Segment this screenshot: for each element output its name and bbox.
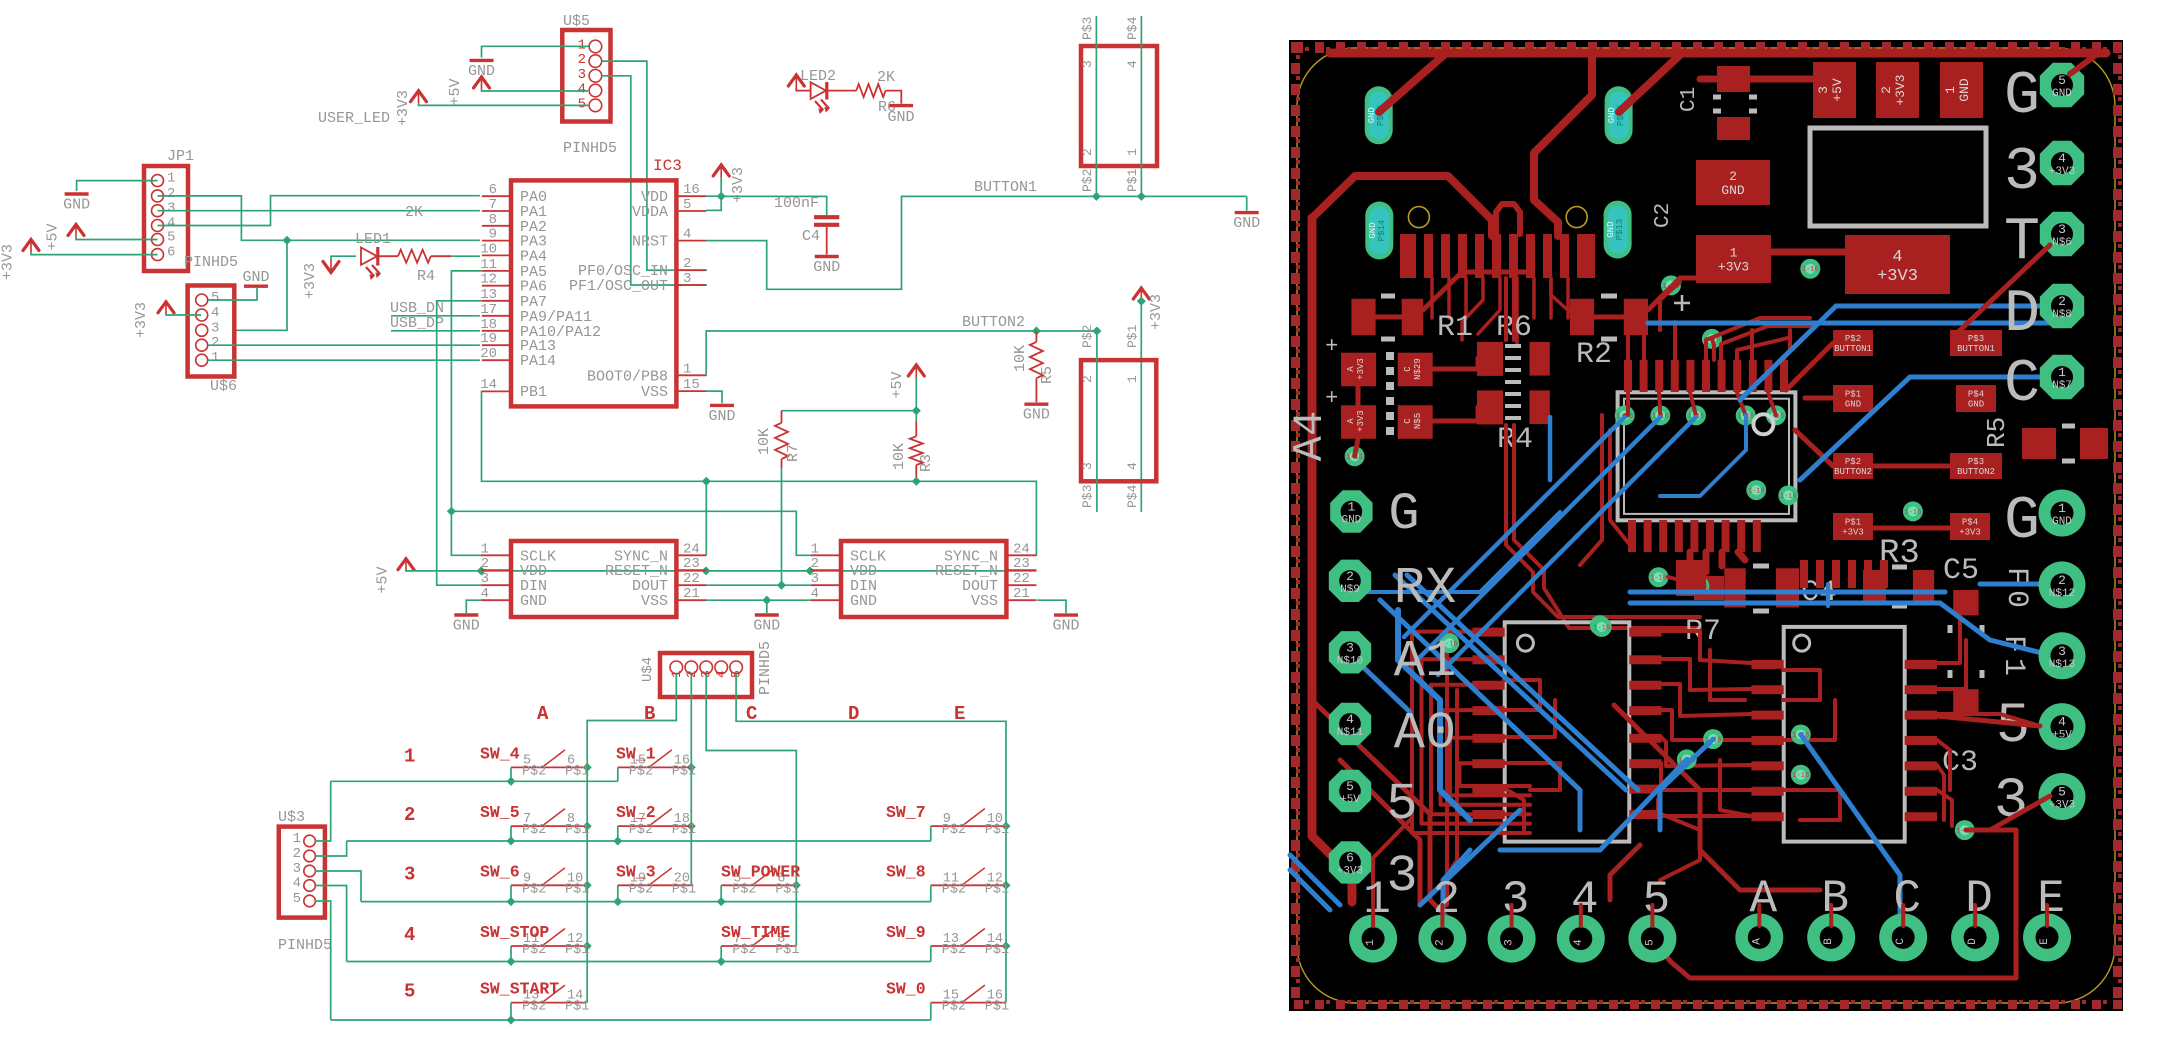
- pad 5 GND: [2040, 63, 2084, 107]
- switch SW_6: [511, 884, 586, 886]
- wire DAC1 VSS to DAC2 GND, shared GND: [706, 599, 811, 601]
- wire NRST to BUTTON1: [706, 196, 1247, 289]
- svg-text:+5V: +5V: [447, 78, 464, 105]
- svg-text:2: 2: [167, 186, 175, 202]
- svg-text:24: 24: [683, 541, 700, 557]
- svg-text:GND: GND: [813, 259, 840, 276]
- svg-text:U$5: U$5: [563, 13, 590, 30]
- svg-text:5: 5: [1644, 939, 1656, 946]
- svg-text:P$2: P$2: [629, 823, 653, 838]
- svg-text:4: 4: [1892, 248, 1902, 267]
- svg-text:P$1: P$1: [1125, 168, 1140, 192]
- wire U$3.5 to bus5: [315, 901, 331, 1020]
- svg-text:A4: A4: [1286, 411, 1334, 461]
- svg-text:23: 23: [1013, 556, 1030, 572]
- svg-text:3: 3: [481, 571, 489, 587]
- DAC U2: [841, 541, 1006, 617]
- IC IC3 (microcontroller): [511, 180, 676, 406]
- svg-text:3: 3: [404, 863, 415, 885]
- svg-text:GND: GND: [753, 618, 780, 635]
- svg-text:GND: GND: [1023, 407, 1050, 424]
- pad P$14 GND (teal oval): [1365, 202, 1393, 260]
- svg-text:BUTTON1: BUTTON1: [1957, 344, 1995, 354]
- svg-text:1-16: 1-16: [1650, 575, 1667, 583]
- svg-text:4: 4: [1125, 60, 1140, 68]
- svg-text:5: 5: [211, 290, 219, 306]
- capacitor C1 pads: [1717, 66, 1750, 92]
- svg-text:A: A: [1749, 873, 1777, 925]
- svg-text:SW_POWER: SW_POWER: [721, 862, 800, 881]
- svg-text:BOOT0/PB8: BOOT0/PB8: [587, 368, 668, 385]
- svg-text:P$1: P$1: [565, 943, 589, 958]
- DAC A inner loops: [1504, 680, 1540, 710]
- switch SW_TIME: [721, 945, 796, 947]
- wire JP1.3 to PA1: [158, 210, 480, 212]
- ground: [65, 192, 89, 195]
- svg-text:4: 4: [1125, 462, 1140, 470]
- +3V3 supply JP1.6: [23, 240, 39, 251]
- svg-text:1-16: 1-16: [1802, 266, 1819, 274]
- svg-text:+3V3: +3V3: [1877, 267, 1918, 286]
- svg-text:+5V: +5V: [45, 223, 62, 250]
- svg-text:+3V3: +3V3: [1356, 358, 1366, 380]
- switch SW_0: [931, 1002, 1006, 1004]
- wire R4 to PA4: [451, 255, 480, 257]
- connector JP1 PINHD6: [144, 166, 188, 271]
- switch SW_5: [511, 825, 586, 827]
- svg-text:+3V3: +3V3: [302, 263, 319, 299]
- wire switch drops: [510, 767, 512, 781]
- pad 1 GND (big octagon): [1330, 490, 1372, 532]
- pad P$2 BUTTON1: [1833, 330, 1873, 356]
- svg-text:0: 0: [1999, 590, 2033, 608]
- blue traces: [1395, 575, 1626, 790]
- svg-text:N$5: N$5: [1413, 413, 1423, 429]
- LED LED1: [361, 248, 377, 265]
- svg-text:23: 23: [683, 556, 700, 572]
- svg-text:3: 3: [578, 67, 586, 83]
- svg-text:+5V: +5V: [375, 566, 392, 593]
- svg-text:P$4: P$4: [1962, 518, 1978, 528]
- wire PA7 to DIN: [437, 301, 482, 585]
- svg-text:1: 1: [683, 361, 691, 377]
- pad P$3 BUTTON1: [1950, 330, 2002, 356]
- QFP interior traces: [1625, 392, 1628, 415]
- svg-text:B: B: [1821, 873, 1849, 925]
- traces into bottom pads: [1371, 905, 1375, 926]
- trace left of QFP: [1610, 430, 1630, 545]
- svg-text:21: 21: [1013, 586, 1030, 602]
- svg-text:5: 5: [1643, 874, 1671, 926]
- svg-text:A: A: [537, 703, 549, 725]
- svg-text:+5V: +5V: [1340, 794, 1360, 806]
- svg-text:GND: GND: [63, 197, 90, 214]
- trace top center down: [1534, 55, 1592, 236]
- svg-text:3: 3: [683, 271, 691, 287]
- svg-text:P$1: P$1: [1845, 518, 1861, 528]
- svg-text:BUTTON1: BUTTON1: [974, 179, 1037, 196]
- svg-text:22: 22: [1013, 571, 1030, 587]
- svg-text:P$2: P$2: [732, 882, 756, 897]
- DAC B top pins: [1800, 560, 1808, 588]
- svg-text:4: 4: [578, 82, 586, 98]
- pad N$5: [1398, 405, 1433, 439]
- svg-text:P$2: P$2: [732, 943, 756, 958]
- svg-text:2: 2: [1729, 169, 1737, 184]
- svg-text:GND: GND: [1845, 400, 1861, 410]
- svg-text:GND: GND: [708, 408, 735, 425]
- svg-text:+5V: +5V: [889, 371, 906, 398]
- button S1 footprint box: [1081, 46, 1157, 166]
- svg-text:GND: GND: [850, 593, 877, 610]
- svg-text:P$1: P$1: [672, 823, 696, 838]
- drill marks (yellow circles): [1408, 207, 1429, 228]
- svg-text:N$12: N$12: [2049, 588, 2075, 600]
- svg-text:4: 4: [1346, 712, 1354, 727]
- svg-text:P$2: P$2: [522, 943, 546, 958]
- svg-text:P$1: P$1: [985, 1000, 1009, 1015]
- traces N$29/N$5 to center pads: [1433, 358, 1478, 369]
- pad 2 GND: [1696, 160, 1770, 205]
- svg-text:A1: A1: [1394, 632, 1456, 691]
- wire VSS to GND: [706, 391, 722, 403]
- USB shell outline: [1496, 204, 1520, 234]
- svg-text:+3V3: +3V3: [0, 244, 17, 280]
- bottom pads A-E: [1735, 913, 1783, 961]
- +5V supply DAC rail: [398, 559, 414, 570]
- svg-text:N$13: N$13: [2049, 659, 2075, 671]
- svg-text:1-16: 1-16: [1904, 509, 1921, 517]
- svg-text:14: 14: [480, 377, 497, 393]
- IC3 left pins: [482, 195, 511, 197]
- svg-text:3: 3: [1080, 60, 1095, 68]
- svg-text:9: 9: [489, 227, 497, 243]
- svg-text:1-16: 1-16: [1593, 624, 1610, 632]
- traces buttons to QFP: [1786, 343, 1833, 390]
- svg-text:N$8: N$8: [2052, 309, 2072, 321]
- svg-text:1: 1: [1996, 658, 2030, 676]
- svg-text:5: 5: [167, 230, 175, 246]
- svg-text:USER_LED: USER_LED: [318, 110, 390, 127]
- svg-text:+3V3: +3V3: [2049, 166, 2075, 178]
- svg-text:1: 1: [1125, 375, 1140, 383]
- switch SW_1: [618, 766, 693, 768]
- svg-text:R4: R4: [417, 268, 435, 285]
- svg-text:R5: R5: [1982, 417, 2012, 448]
- wire row bus 5: [331, 1019, 931, 1021]
- ground: [1024, 403, 1048, 406]
- DAC B pins: [1751, 660, 1783, 669]
- svg-text:SW_7: SW_7: [886, 803, 926, 822]
- pad 6 +3V3: [1329, 841, 1371, 883]
- svg-text:15: 15: [683, 377, 700, 393]
- svg-text:5: 5: [404, 981, 415, 1003]
- svg-text:1: 1: [1365, 939, 1377, 946]
- svg-text:2K: 2K: [405, 204, 423, 221]
- switch SW_STOP: [511, 945, 586, 947]
- svg-text:BUTTON1: BUTTON1: [1834, 344, 1872, 354]
- svg-text:3: 3: [1502, 874, 1530, 926]
- switch SW_2: [618, 825, 693, 827]
- svg-text:P$2: P$2: [522, 764, 546, 779]
- wire to LED1: [331, 256, 356, 259]
- svg-text:C: C: [1895, 938, 1907, 945]
- svg-text:C: C: [746, 703, 757, 725]
- connector U$6 PINHD5: [188, 286, 235, 377]
- svg-text:2: 2: [1080, 375, 1095, 383]
- svg-text:22: 22: [683, 571, 700, 587]
- svg-text:P$1: P$1: [565, 882, 589, 897]
- resistor R1 pads: [1351, 299, 1375, 335]
- QFP top pins: [1624, 360, 1632, 392]
- trace battery pads: [1356, 386, 1361, 405]
- svg-text:2: 2: [1433, 874, 1461, 926]
- resistor R4 2K: [379, 255, 398, 257]
- svg-text:2: 2: [404, 804, 415, 826]
- svg-text:3: 3: [2058, 644, 2066, 659]
- svg-text:E: E: [954, 703, 965, 725]
- twin vertical traces: [1504, 278, 1508, 340]
- svg-text:+5V: +5V: [1830, 78, 1845, 102]
- svg-text:R5: R5: [1039, 366, 1056, 384]
- svg-text:IC3: IC3: [653, 157, 682, 175]
- wire U$5.2 to PF0/OSC_IN: [602, 61, 708, 270]
- svg-text:GND: GND: [887, 109, 914, 126]
- svg-text:4: 4: [293, 876, 301, 892]
- svg-text:+: +: [1325, 386, 1338, 411]
- svg-text:1: 1: [404, 745, 415, 767]
- svg-text:SW_4: SW_4: [480, 744, 520, 763]
- pad 3 N$10: [1329, 631, 1371, 673]
- svg-text:4: 4: [211, 305, 219, 321]
- wire U$3.2 to bus2: [315, 841, 347, 856]
- button S2 footprint box: [1081, 360, 1156, 481]
- svg-text:GND: GND: [1368, 222, 1378, 238]
- svg-text:N$7: N$7: [2052, 380, 2072, 392]
- wire U$3.4 to bus4: [315, 886, 347, 962]
- pad 2 N$8: [2040, 284, 2084, 328]
- svg-text:3: 3: [1080, 462, 1095, 470]
- svg-text:5: 5: [2058, 785, 2066, 800]
- svg-text:P$3: P$3: [1968, 457, 1984, 467]
- trace to P$15: [1619, 55, 1680, 112]
- IC3 right pins: [676, 195, 706, 197]
- svg-text:1: 1: [1347, 500, 1355, 515]
- svg-text:C: C: [1403, 418, 1413, 424]
- svg-text:SW_3: SW_3: [616, 862, 656, 881]
- svg-text:VSS: VSS: [641, 384, 668, 401]
- svg-text:C: C: [1893, 873, 1921, 925]
- pad 5 +3V3: [2039, 773, 2086, 820]
- svg-text:A: A: [1346, 366, 1356, 372]
- svg-text:3: 3: [1504, 939, 1516, 946]
- svg-text:G: G: [2004, 63, 2040, 131]
- svg-text:PA4: PA4: [520, 248, 547, 265]
- svg-text:P$2: P$2: [1845, 334, 1861, 344]
- svg-text:GND: GND: [1341, 515, 1361, 527]
- pad P$16 GND (teal oval): [1365, 86, 1393, 144]
- svg-text:17: 17: [480, 302, 497, 318]
- DAC A pins: [1472, 628, 1504, 637]
- svg-text:E: E: [2039, 938, 2051, 945]
- svg-text:RX: RX: [1394, 559, 1456, 618]
- DAC A silk: [1505, 622, 1630, 841]
- svg-text:2: 2: [1434, 939, 1446, 946]
- trace left edge network: [1312, 176, 1492, 236]
- svg-text:A: A: [1346, 418, 1356, 424]
- pad P$2 BUTTON2: [1833, 453, 1873, 479]
- +3V3 supply U$5.5: [411, 91, 427, 102]
- svg-text:P$1: P$1: [775, 943, 799, 958]
- svg-text:JP1: JP1: [167, 148, 194, 165]
- svg-text:PINHD5: PINHD5: [757, 641, 774, 695]
- svg-text:4: 4: [2058, 151, 2066, 166]
- svg-text:E: E: [2037, 873, 2065, 925]
- svg-text:R3: R3: [918, 454, 935, 472]
- pad P$3 BUTTON2: [1950, 453, 2002, 479]
- svg-text:10K: 10K: [891, 443, 908, 470]
- svg-text:2: 2: [1879, 86, 1894, 94]
- svg-text:+3V3: +3V3: [2049, 800, 2075, 812]
- svg-text:4: 4: [404, 924, 415, 946]
- wire U$3.1 to bus1: [315, 781, 331, 841]
- svg-text:3: 3: [1386, 847, 1417, 906]
- QFP vias: [1615, 405, 1635, 425]
- svg-text:PF1/OSC_OUT: PF1/OSC_OUT: [569, 278, 668, 295]
- svg-text:C2: C2: [1652, 203, 1675, 228]
- switch SW_POWER: [721, 884, 796, 886]
- svg-text:13: 13: [480, 287, 497, 303]
- wire button1 pin columns: [1095, 16, 1097, 197]
- svg-text:P$2: P$2: [522, 882, 546, 897]
- ground: [470, 59, 494, 62]
- svg-text:P$1: P$1: [775, 882, 799, 897]
- svg-text:5: 5: [578, 96, 586, 112]
- svg-text:P$3: P$3: [1080, 485, 1095, 508]
- trace to P$16: [1379, 55, 1444, 112]
- LED LED2: [796, 88, 810, 91]
- PCB board outline: [1289, 40, 2123, 1011]
- DAC U1: [511, 541, 676, 617]
- ground: [1235, 211, 1259, 214]
- traces QFP top up: [1628, 318, 1640, 360]
- pad P$15 GND (teal oval): [1605, 86, 1633, 144]
- wire row bus 3: [361, 901, 931, 903]
- connector U$3 PINHD5: [279, 827, 325, 918]
- wire U$6.5 to GND: [208, 288, 257, 300]
- svg-text:D: D: [1967, 938, 1979, 945]
- via near 1+3V3: [1800, 259, 1820, 279]
- connector U$5 PINHD5: [562, 30, 610, 122]
- svg-text:2: 2: [211, 335, 219, 351]
- pad P$4 +3V3: [1950, 513, 1990, 540]
- svg-text:16: 16: [683, 182, 700, 198]
- svg-text:4: 4: [714, 670, 729, 678]
- wire U$4.2 to column B: [690, 674, 692, 885]
- pad 4 N$11: [1329, 703, 1371, 745]
- QFP bottom pins: [1628, 520, 1636, 552]
- pad N$29: [1398, 353, 1433, 387]
- resistor R6 2K: [827, 90, 857, 92]
- wire U$4.3 to column C: [706, 674, 796, 946]
- pad 5 +5V: [1329, 770, 1371, 812]
- wire row bus 2: [347, 840, 931, 842]
- wire row bus 4: [347, 961, 931, 963]
- svg-text:BUTTON2: BUTTON2: [962, 314, 1025, 331]
- svg-text:1-16: 1-16: [1792, 772, 1809, 780]
- IC3 pin PB1: [482, 390, 511, 392]
- svg-text:1: 1: [2058, 365, 2066, 380]
- svg-text:+3V3: +3V3: [730, 167, 747, 203]
- svg-text:2: 2: [1080, 148, 1095, 156]
- svg-text:GND: GND: [1052, 618, 1079, 635]
- svg-text:N$9: N$9: [1340, 584, 1360, 596]
- svg-text:GND: GND: [1607, 107, 1617, 123]
- wire button2 pin columns: [1096, 331, 1098, 512]
- DAC B silk: [1784, 627, 1905, 842]
- svg-text:GND: GND: [1968, 400, 1984, 410]
- svg-text:GND: GND: [242, 269, 269, 286]
- svg-text:SW_1: SW_1: [616, 744, 656, 763]
- svg-text:GND: GND: [1367, 107, 1377, 123]
- svg-text:D: D: [1965, 873, 1993, 925]
- svg-text:LED2: LED2: [800, 68, 836, 85]
- pad +3V3 small (x2): [1341, 353, 1376, 387]
- ground: [815, 255, 839, 258]
- ground: [1054, 613, 1078, 616]
- svg-text:1: 1: [293, 831, 301, 847]
- svg-text:3: 3: [811, 571, 819, 587]
- pad P$1 +3V3: [1833, 513, 1873, 540]
- svg-text:GND: GND: [1721, 183, 1745, 198]
- DAC B right traces: [1937, 620, 1960, 663]
- svg-text:+3V3: +3V3: [1893, 74, 1908, 105]
- svg-text:5: 5: [293, 891, 301, 907]
- USB connector fingers: [1400, 234, 1416, 278]
- +3V3 supply U$6.4: [158, 302, 174, 313]
- svg-text:1: 1: [1730, 245, 1738, 260]
- svg-text:P$2: P$2: [942, 1000, 966, 1015]
- resistor R5 10K: [1035, 331, 1037, 342]
- svg-text:2: 2: [1346, 569, 1354, 584]
- wire DAC1 DOUT to DAC2 DIN: [706, 584, 811, 586]
- svg-text:8: 8: [489, 212, 497, 228]
- svg-text:7: 7: [489, 197, 497, 213]
- svg-text:+3V3: +3V3: [1356, 410, 1366, 432]
- svg-text:P$1: P$1: [672, 882, 696, 897]
- switch SW_7: [931, 825, 1006, 827]
- svg-text:BUTTON2: BUTTON2: [1957, 467, 1995, 477]
- svg-text:+3V3: +3V3: [1842, 528, 1864, 538]
- pad 2 N$9: [1329, 560, 1371, 602]
- svg-text:SW_2: SW_2: [616, 803, 656, 822]
- wire U$4.1 to column A: [587, 674, 676, 1003]
- silk dashes column: [1386, 352, 1394, 360]
- svg-text:1: 1: [481, 541, 489, 557]
- pad P$1 GND: [1833, 385, 1873, 412]
- svg-text:12: 12: [480, 272, 497, 288]
- svg-text:19: 19: [480, 331, 497, 347]
- R4 center pads: [1477, 342, 1503, 376]
- DAC area traces: [1412, 632, 1530, 833]
- svg-text:B: B: [644, 703, 655, 725]
- svg-text:GND: GND: [1233, 215, 1260, 232]
- resistor R7 10K: [781, 411, 783, 423]
- svg-text:P$1: P$1: [985, 882, 1009, 897]
- power pads 3/+5V 2/+3V3 1/GND: [1813, 62, 1856, 118]
- svg-text:PINHD5: PINHD5: [278, 937, 332, 954]
- svg-text:C1: C1: [1678, 87, 1701, 112]
